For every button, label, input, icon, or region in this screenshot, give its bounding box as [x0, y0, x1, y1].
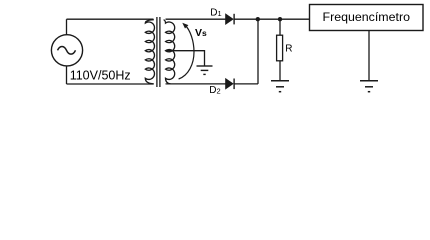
- ground G1 bar 2: [201, 69, 209, 71]
- transformer T1 core line 2: [159, 17, 161, 87]
- wire: top rail down to resistor: [279, 19, 281, 35]
- wire: secondary top to D1: [166, 18, 227, 20]
- wire: resistor to ground: [279, 61, 281, 80]
- wire: left vertical below source: [66, 66, 68, 84]
- wire: box bottom to ground: [368, 31, 370, 81]
- diode D2 cathode bar: [233, 79, 235, 90]
- transformer T1 core line 1: [156, 17, 158, 87]
- wire: bottom-left rail from source to primary: [67, 83, 154, 85]
- wire: D2 to riser corner: [234, 83, 258, 85]
- svg-text:D2: D2: [209, 85, 220, 96]
- junction node at riser and top rail: [256, 17, 260, 21]
- ground G2 bar 3: [279, 91, 281, 93]
- ground G1 bar 3: [203, 73, 205, 75]
- ground G2 bar 2: [276, 86, 284, 88]
- junction node at resistor branch: [278, 17, 282, 21]
- transformer T1 primary winding: [145, 20, 154, 84]
- transformer T1 secondary winding: [164, 20, 175, 84]
- ground G1 (center tap) bar 1: [197, 65, 213, 67]
- Vs arrowhead: [182, 23, 188, 29]
- AC source sine symbol: [58, 46, 76, 54]
- svg-text:D1: D1: [210, 7, 221, 18]
- wire: secondary bottom to D2: [166, 83, 227, 85]
- Vs arc arrow: [179, 25, 194, 80]
- svg-text:R: R: [285, 43, 292, 54]
- svg-text:110V/50Hz: 110V/50Hz: [70, 68, 131, 83]
- ground G3 bar 3: [368, 91, 370, 93]
- AC source V1 circle: [51, 35, 82, 66]
- diode D1 cathode bar: [233, 14, 235, 25]
- resistor R body: [277, 35, 283, 61]
- ground G2 (below resistor) bar 1: [271, 80, 289, 82]
- wire: center tap to ground: [166, 51, 205, 66]
- svg-text:Frequencímetro: Frequencímetro: [323, 12, 411, 24]
- frequency meter box: [310, 5, 424, 31]
- diode D1 triangle: [226, 14, 234, 25]
- svg-text:Vs: Vs: [195, 27, 207, 39]
- wire: riser from D2 rail up to top rail: [257, 19, 259, 84]
- ground G3 (below box) bar 1: [360, 80, 378, 82]
- wire: top-left rail from source to primary: [67, 18, 154, 20]
- diode D2 triangle: [226, 79, 234, 90]
- wire: D1 cathode to frequency-meter box: [234, 18, 309, 20]
- ground G3 bar 2: [365, 86, 373, 88]
- wire: left vertical above source: [66, 19, 68, 35]
